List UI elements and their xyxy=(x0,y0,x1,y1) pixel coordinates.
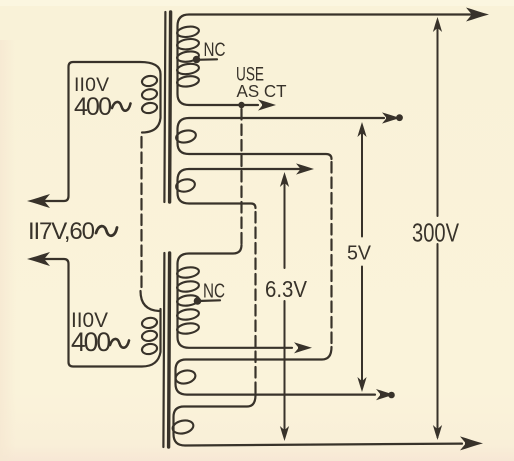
svg-text:AS CT: AS CT xyxy=(237,81,287,101)
svg-text:NC: NC xyxy=(203,281,225,303)
svg-text:6.3V: 6.3V xyxy=(265,276,307,302)
svg-text:400: 400 xyxy=(74,93,112,121)
svg-text:300V: 300V xyxy=(412,220,459,248)
svg-text:400: 400 xyxy=(71,327,111,357)
svg-text:5V: 5V xyxy=(347,242,371,265)
svg-text:II7V,60: II7V,60 xyxy=(28,218,95,245)
svg-text:NC: NC xyxy=(204,39,226,61)
